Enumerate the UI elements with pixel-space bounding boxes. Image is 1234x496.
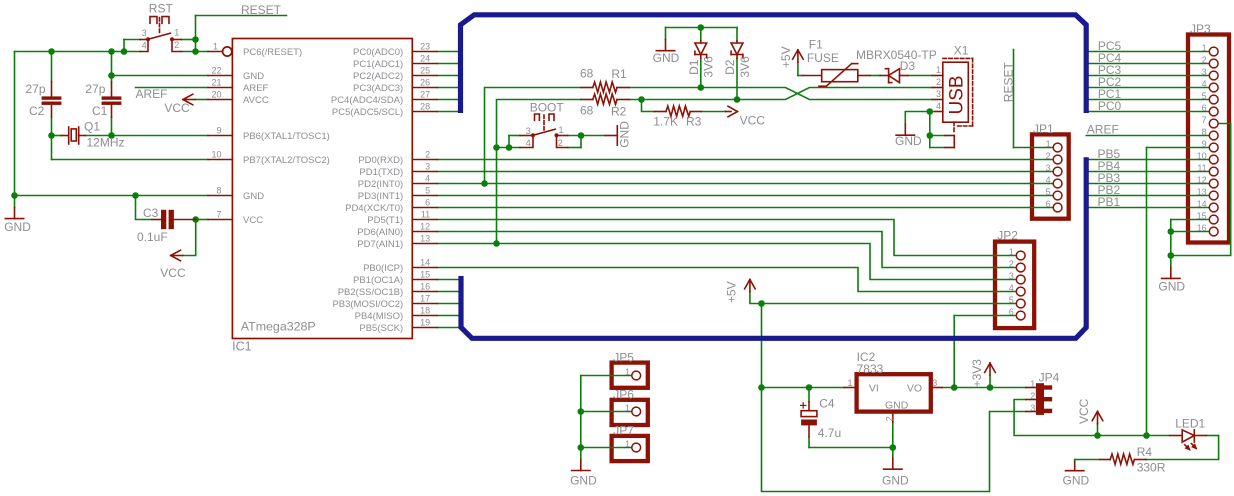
svg-text:R1: R1 xyxy=(611,67,627,81)
svg-text:1: 1 xyxy=(847,378,852,388)
svg-text:D2: D2 xyxy=(723,59,737,75)
svg-text:8: 8 xyxy=(216,185,221,195)
svg-text:11: 11 xyxy=(1197,163,1206,173)
svg-text:C2: C2 xyxy=(29,104,45,118)
svg-text:AREF: AREF xyxy=(136,87,168,101)
svg-text:+5V: +5V xyxy=(724,281,738,303)
svg-text:6: 6 xyxy=(1202,103,1207,113)
svg-text:27: 27 xyxy=(420,89,430,99)
svg-text:7833: 7833 xyxy=(857,362,884,376)
svg-text:27p: 27p xyxy=(85,82,105,96)
svg-text:26: 26 xyxy=(420,77,430,87)
svg-text:R2: R2 xyxy=(611,104,627,118)
svg-text:7: 7 xyxy=(1202,115,1207,125)
svg-text:JP6: JP6 xyxy=(613,388,634,402)
svg-text:MBRX0540-TP: MBRX0540-TP xyxy=(856,48,937,62)
svg-text:17: 17 xyxy=(420,293,430,303)
svg-text:18: 18 xyxy=(420,305,430,315)
svg-text:12: 12 xyxy=(1197,175,1207,185)
svg-text:3: 3 xyxy=(1202,67,1207,77)
svg-text:GND: GND xyxy=(1158,280,1185,294)
svg-text:11: 11 xyxy=(421,209,430,219)
svg-text:PB0(ICP): PB0(ICP) xyxy=(363,263,403,274)
svg-text:4: 4 xyxy=(1202,79,1207,89)
svg-text:3: 3 xyxy=(1030,403,1035,413)
svg-text:9: 9 xyxy=(1202,139,1207,149)
svg-text:JP4: JP4 xyxy=(1039,370,1060,384)
svg-text:R3: R3 xyxy=(686,115,702,129)
svg-text:AVCC: AVCC xyxy=(243,95,269,106)
svg-text:JP5: JP5 xyxy=(613,350,634,364)
svg-text:VI: VI xyxy=(869,383,879,395)
svg-text:PB2(SS/OC1B): PB2(SS/OC1B) xyxy=(338,287,403,298)
svg-text:16: 16 xyxy=(1197,223,1207,233)
svg-text:PD4(XCK/T0): PD4(XCK/T0) xyxy=(345,203,403,214)
svg-text:14: 14 xyxy=(1197,199,1207,209)
svg-text:PC4(ADC4/SDA): PC4(ADC4/SDA) xyxy=(331,95,403,106)
svg-text:JP1: JP1 xyxy=(1033,122,1054,136)
svg-text:3: 3 xyxy=(526,126,531,136)
svg-text:1: 1 xyxy=(213,41,218,51)
svg-text:4: 4 xyxy=(1046,175,1051,185)
svg-text:13: 13 xyxy=(420,233,430,243)
svg-text:PC1(ADC1): PC1(ADC1) xyxy=(353,59,403,70)
svg-text:28: 28 xyxy=(420,101,430,111)
svg-text:GND: GND xyxy=(4,220,31,234)
svg-text:1: 1 xyxy=(625,367,630,377)
svg-text:0.1uF: 0.1uF xyxy=(137,230,168,244)
svg-text:RST: RST xyxy=(149,1,174,15)
svg-text:D1: D1 xyxy=(687,59,701,75)
svg-text:IC1: IC1 xyxy=(232,340,252,354)
svg-text:6: 6 xyxy=(1046,199,1051,209)
svg-text:PD0(RXD): PD0(RXD) xyxy=(358,155,403,166)
svg-text:1: 1 xyxy=(1030,379,1035,389)
svg-text:D3: D3 xyxy=(900,59,916,73)
svg-text:10: 10 xyxy=(211,149,221,159)
svg-text:1: 1 xyxy=(1046,139,1051,149)
svg-text:PD2(INT0): PD2(INT0) xyxy=(358,179,403,190)
svg-text:15: 15 xyxy=(420,269,430,279)
svg-text:2: 2 xyxy=(1202,55,1207,65)
svg-text:PB1(OC1A): PB1(OC1A) xyxy=(353,275,403,286)
svg-text:VCC: VCC xyxy=(243,215,263,226)
svg-text:GND: GND xyxy=(243,71,264,82)
svg-text:5: 5 xyxy=(1046,187,1051,197)
svg-text:PB7(XTAL2/TOSC2): PB7(XTAL2/TOSC2) xyxy=(243,155,330,166)
svg-text:PB3(MOSI/OC2): PB3(MOSI/OC2) xyxy=(332,299,403,310)
svg-text:1: 1 xyxy=(936,65,941,75)
svg-text:X1: X1 xyxy=(954,44,969,58)
svg-text:JP7: JP7 xyxy=(613,424,634,438)
svg-text:JP2: JP2 xyxy=(997,229,1018,243)
svg-text:PC0: PC0 xyxy=(1098,99,1122,113)
svg-text:AREF: AREF xyxy=(243,83,269,94)
svg-text:5: 5 xyxy=(1009,295,1014,305)
svg-text:GND: GND xyxy=(570,474,597,488)
svg-text:VCC: VCC xyxy=(164,101,190,115)
svg-text:16: 16 xyxy=(420,281,430,291)
svg-text:VCC: VCC xyxy=(160,266,186,280)
svg-text:1: 1 xyxy=(625,439,630,449)
svg-text:4: 4 xyxy=(142,40,147,50)
svg-text:PC6(/RESET): PC6(/RESET) xyxy=(243,47,302,58)
svg-text:1.7K: 1.7K xyxy=(653,115,678,129)
svg-text:10: 10 xyxy=(1197,151,1207,161)
svg-text:PB4(MISO): PB4(MISO) xyxy=(355,311,404,322)
svg-text:2: 2 xyxy=(1030,391,1035,401)
svg-text:PB6(XTAL1/TOSC1): PB6(XTAL1/TOSC1) xyxy=(243,131,330,142)
svg-text:PD7(AIN1): PD7(AIN1) xyxy=(357,239,403,250)
svg-text:BOOT: BOOT xyxy=(530,101,565,115)
svg-text:PD5(T1): PD5(T1) xyxy=(367,215,403,226)
svg-text:7: 7 xyxy=(216,209,221,219)
svg-text:GND: GND xyxy=(895,134,922,148)
svg-text:VCC: VCC xyxy=(1077,398,1091,424)
svg-text:12MHz: 12MHz xyxy=(87,136,125,150)
svg-text:3: 3 xyxy=(142,28,147,38)
svg-text:4: 4 xyxy=(526,138,531,148)
svg-text:3: 3 xyxy=(932,378,937,388)
svg-text:F1: F1 xyxy=(809,38,823,52)
svg-text:3V6: 3V6 xyxy=(702,56,716,78)
svg-text:+5V: +5V xyxy=(779,46,793,68)
svg-text:68: 68 xyxy=(580,66,594,80)
svg-text:PC3(ADC3): PC3(ADC3) xyxy=(353,83,403,94)
svg-text:6: 6 xyxy=(1009,307,1014,317)
svg-text:12: 12 xyxy=(420,221,430,231)
svg-text:14: 14 xyxy=(420,257,430,267)
svg-text:FUSE: FUSE xyxy=(807,51,839,65)
svg-text:3: 3 xyxy=(1046,163,1051,173)
svg-text:+3V3: +3V3 xyxy=(970,359,984,388)
svg-text:LED1: LED1 xyxy=(1175,416,1205,430)
svg-text:2: 2 xyxy=(936,77,941,87)
svg-text:USB: USB xyxy=(947,75,968,114)
svg-text:68: 68 xyxy=(580,104,594,118)
svg-text:4: 4 xyxy=(936,101,941,111)
svg-text:PD6(AIN0): PD6(AIN0) xyxy=(357,227,403,238)
svg-text:AREF: AREF xyxy=(1087,123,1119,137)
svg-text:PD1(TXD): PD1(TXD) xyxy=(359,167,403,178)
svg-text:330R: 330R xyxy=(1137,461,1166,475)
svg-text:4.7u: 4.7u xyxy=(818,426,841,440)
svg-text:PC5(ADC5/SCL): PC5(ADC5/SCL) xyxy=(332,107,403,118)
svg-text:2: 2 xyxy=(885,416,895,421)
svg-text:22: 22 xyxy=(211,65,221,75)
svg-text:15: 15 xyxy=(1197,211,1207,221)
svg-text:Q1: Q1 xyxy=(84,119,100,133)
svg-text:21: 21 xyxy=(211,77,221,87)
svg-text:C1: C1 xyxy=(92,104,108,118)
svg-text:19: 19 xyxy=(420,317,430,327)
svg-text:PD3(INT1): PD3(INT1) xyxy=(358,191,403,202)
svg-text:1: 1 xyxy=(174,27,179,37)
svg-text:3V6: 3V6 xyxy=(738,56,752,78)
svg-text:GND: GND xyxy=(882,473,909,487)
svg-text:PB5(SCK): PB5(SCK) xyxy=(359,323,403,334)
svg-text:1: 1 xyxy=(1009,247,1014,257)
svg-text:5: 5 xyxy=(425,185,430,195)
svg-text:GND: GND xyxy=(618,121,632,148)
svg-text:3: 3 xyxy=(425,161,430,171)
svg-text:8: 8 xyxy=(1202,127,1207,137)
svg-text:C4: C4 xyxy=(819,397,835,411)
svg-text:RESET: RESET xyxy=(241,3,282,17)
svg-text:3: 3 xyxy=(1009,271,1014,281)
svg-text:PC2(ADC2): PC2(ADC2) xyxy=(353,71,403,82)
svg-text:9: 9 xyxy=(216,125,221,135)
svg-text:C3: C3 xyxy=(143,206,159,220)
svg-text:GND: GND xyxy=(1063,474,1090,488)
svg-text:ATmega328P: ATmega328P xyxy=(241,319,316,333)
svg-text:GND: GND xyxy=(885,399,909,411)
svg-text:RESET: RESET xyxy=(1001,62,1015,103)
svg-text:2: 2 xyxy=(558,138,563,148)
svg-text:1: 1 xyxy=(625,403,630,413)
svg-text:GND: GND xyxy=(653,51,680,65)
svg-text:2: 2 xyxy=(1046,151,1051,161)
svg-text:PC0(ADC0): PC0(ADC0) xyxy=(353,47,403,58)
svg-text:23: 23 xyxy=(420,41,430,51)
svg-text:PB1: PB1 xyxy=(1098,195,1121,209)
svg-text:GND: GND xyxy=(243,191,264,202)
svg-text:VCC: VCC xyxy=(740,113,766,127)
svg-text:1: 1 xyxy=(559,125,564,135)
svg-text:25: 25 xyxy=(420,65,430,75)
svg-text:24: 24 xyxy=(420,53,430,63)
svg-text:2: 2 xyxy=(1009,259,1014,269)
svg-text:VO: VO xyxy=(907,383,922,395)
svg-text:6: 6 xyxy=(425,197,430,207)
svg-text:2: 2 xyxy=(425,149,430,159)
svg-text:1: 1 xyxy=(1202,43,1207,53)
svg-text:R4: R4 xyxy=(1137,445,1153,459)
svg-text:2: 2 xyxy=(174,40,179,50)
svg-text:20: 20 xyxy=(211,89,221,99)
svg-text:3: 3 xyxy=(936,89,941,99)
svg-text:JP3: JP3 xyxy=(1190,22,1211,36)
svg-text:13: 13 xyxy=(1197,187,1207,197)
svg-text:4: 4 xyxy=(425,173,430,183)
svg-text:5: 5 xyxy=(1202,91,1207,101)
svg-text:4: 4 xyxy=(1009,283,1014,293)
svg-text:27p: 27p xyxy=(26,82,46,96)
